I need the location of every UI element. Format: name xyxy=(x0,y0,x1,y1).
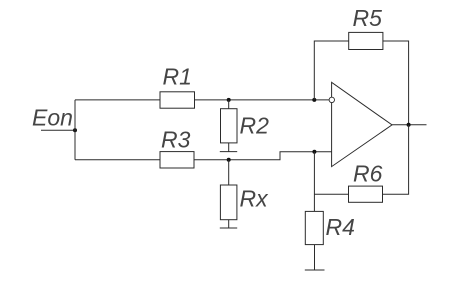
ground bar under R4 xyxy=(305,269,325,271)
resistor R6 xyxy=(349,186,383,202)
ground bar under Rx xyxy=(220,227,237,229)
wire R5 to output vertical xyxy=(383,41,409,125)
wire R2 stub xyxy=(228,100,230,109)
svg-text:R5: R5 xyxy=(353,5,383,31)
wire R2 bottom stub xyxy=(228,143,230,152)
resistor Rx xyxy=(220,185,237,220)
wire feedback up to R5 xyxy=(314,41,348,100)
resistor R3 xyxy=(160,152,194,168)
node feedback tap A xyxy=(312,98,316,102)
wire Rx stub xyxy=(228,160,230,185)
ground bar under R2 xyxy=(220,151,237,153)
svg-text:R6: R6 xyxy=(353,161,383,187)
svg-text:R3: R3 xyxy=(161,127,191,153)
wire Rx ground stub xyxy=(228,220,230,228)
resistor R5 xyxy=(349,32,383,49)
node output junction xyxy=(407,123,411,127)
wire R4 ground stub xyxy=(314,245,316,270)
node R2 tap xyxy=(227,98,231,102)
node Eon junction xyxy=(73,128,77,132)
wire non-inverting down to R4 xyxy=(313,152,315,212)
svg-text:R4: R4 xyxy=(326,214,355,240)
node Rx tap xyxy=(227,158,231,162)
wire R6 to vertical xyxy=(314,193,348,195)
wire lower rail right xyxy=(194,152,332,160)
node non-inverting tap B xyxy=(312,150,316,154)
wire output down to R6 xyxy=(383,125,409,195)
resistor R4 xyxy=(305,211,323,244)
resistor R1 xyxy=(160,92,195,108)
svg-text:Eon: Eon xyxy=(32,105,73,131)
wire top rail right xyxy=(195,99,330,101)
op-amp U1 xyxy=(332,82,392,166)
node Eon input stub xyxy=(41,129,75,131)
wire left vertical xyxy=(74,100,76,160)
wire top rail left xyxy=(75,99,160,101)
wire output xyxy=(392,124,427,126)
svg-text:R2: R2 xyxy=(240,113,270,139)
wire lower rail left xyxy=(75,159,160,161)
inverting input circle xyxy=(329,97,334,102)
resistor R2 xyxy=(221,109,238,143)
svg-text:Rx: Rx xyxy=(240,186,270,212)
svg-text:R1: R1 xyxy=(163,64,192,90)
